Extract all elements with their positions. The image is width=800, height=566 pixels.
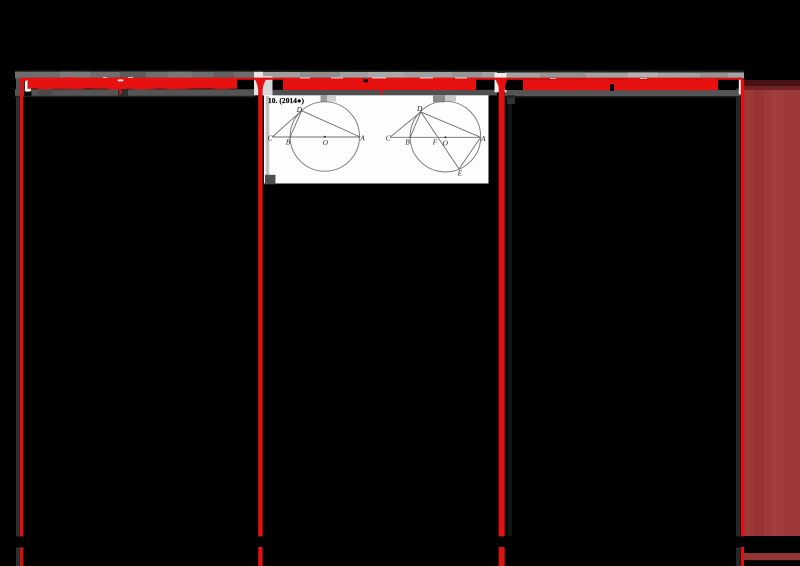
right line C-D xyxy=(390,112,421,137)
svg-text:D: D xyxy=(296,105,303,114)
dark red page block at right edge xyxy=(744,80,800,536)
right center dot O xyxy=(444,136,446,138)
black square left of col3 heading text xyxy=(505,80,514,90)
red vertical divider line 3 (between col2 and col3) xyxy=(495,78,508,566)
right label F xyxy=(432,137,438,146)
svg-text:O: O xyxy=(443,138,449,147)
blurred top edge row above heading bands xyxy=(15,70,744,72)
svg-text:B: B xyxy=(286,138,291,147)
right chord D-A xyxy=(421,112,481,137)
right secant line C-B-F-O-A xyxy=(390,136,481,138)
right label O xyxy=(443,138,449,147)
red vertical divider line 4 (right of column 3) xyxy=(741,80,744,566)
column 3 heading lower gray band xyxy=(505,90,744,104)
svg-text:F: F xyxy=(432,137,438,146)
svg-text:A: A xyxy=(359,133,365,142)
blurred bottom edge row below col3 lower band xyxy=(505,96,744,97)
column 1 left gray edge line xyxy=(16,72,25,566)
problem number text "10. (2014)" xyxy=(268,96,305,105)
right chord D-B xyxy=(410,112,421,137)
red scribble band over col2 heading xyxy=(283,78,476,91)
svg-text:C: C xyxy=(386,134,391,143)
svg-text:B: B xyxy=(405,138,410,147)
gray blob above right circle xyxy=(433,95,456,102)
blurred bottom edge row below col1 lower band xyxy=(15,96,255,97)
bottom red stripe (next row of red page) xyxy=(743,553,800,560)
col1 scribble comma tail xyxy=(119,89,122,95)
white glyph blob at col1 heading left xyxy=(25,80,31,91)
white strip behind col1/col2 divider xyxy=(254,72,263,96)
column 2 heading lower gray band xyxy=(263,90,497,96)
svg-text:E: E xyxy=(457,168,463,177)
column 3 heading top gray band xyxy=(505,72,744,78)
bottom segments of red divider lines (next page row) xyxy=(20,547,744,566)
left label O xyxy=(323,138,329,147)
solid core of col2 scribble xyxy=(283,79,476,90)
gray blob above left circle xyxy=(321,96,337,103)
solid core of col3 scribble xyxy=(523,80,718,90)
left chord D-B xyxy=(290,111,302,137)
right chord D-E through F xyxy=(421,112,459,169)
red scribble band over col1 heading xyxy=(28,77,238,90)
left line C-D xyxy=(272,111,301,137)
red vertical divider line 1 (left of column 1) xyxy=(20,78,28,566)
left label C xyxy=(268,133,273,142)
black square left of col2 heading text xyxy=(273,80,281,89)
col2 scribble dark notch xyxy=(364,79,369,82)
white strip behind col2/col3 divider xyxy=(495,73,507,93)
right point dot B xyxy=(409,137,411,139)
red scribble band over col3 heading xyxy=(523,78,718,90)
column 3 faint dark strip right of red divider xyxy=(508,95,513,536)
right label A xyxy=(480,134,486,143)
right label C xyxy=(386,134,391,143)
col3 scribble gap xyxy=(610,84,614,91)
left label A xyxy=(359,133,365,142)
column 1 heading lower gray band xyxy=(15,88,255,96)
light patch right of col2 divider xyxy=(263,76,273,96)
black notch under col1 white glyph xyxy=(24,92,32,96)
left point dot B xyxy=(289,136,291,138)
left label D xyxy=(296,105,303,114)
white strip behind col3/col4 divider xyxy=(739,79,742,95)
figure box: white panel in column 2 xyxy=(264,95,489,184)
solid core of col1 scribble xyxy=(28,79,238,89)
svg-text:O: O xyxy=(323,138,329,147)
white speck in col1 scribble xyxy=(118,79,124,81)
column 2 heading top gray band xyxy=(263,72,497,78)
right label B xyxy=(405,138,410,147)
right label D xyxy=(416,104,423,113)
svg-text:10. (2014●): 10. (2014●) xyxy=(268,96,305,105)
svg-text:D: D xyxy=(416,104,423,113)
col2 scribble comma tail xyxy=(380,89,383,95)
right label E xyxy=(457,168,463,177)
white speckles along thin line (col2) xyxy=(103,77,647,79)
red vertical divider line 2 (between col1 and col2) xyxy=(255,78,267,566)
left secant line C-B-O-A xyxy=(272,136,360,138)
left chord D-A xyxy=(302,111,361,137)
black notch over col1 gray line in separator xyxy=(12,538,20,547)
black separator band between page rows xyxy=(0,536,800,547)
right chord A-E xyxy=(459,137,481,169)
svg-text:A: A xyxy=(480,134,486,143)
thin red horizontal annotation line across heading xyxy=(21,78,743,80)
svg-text:C: C xyxy=(268,133,273,142)
column 3 right gray edge line xyxy=(736,88,740,566)
left center dot O xyxy=(324,136,326,138)
column 1 heading top gray band xyxy=(15,72,255,79)
left label B xyxy=(286,138,291,147)
right circle (center O) xyxy=(410,101,481,172)
left circle (center O) xyxy=(290,102,359,171)
